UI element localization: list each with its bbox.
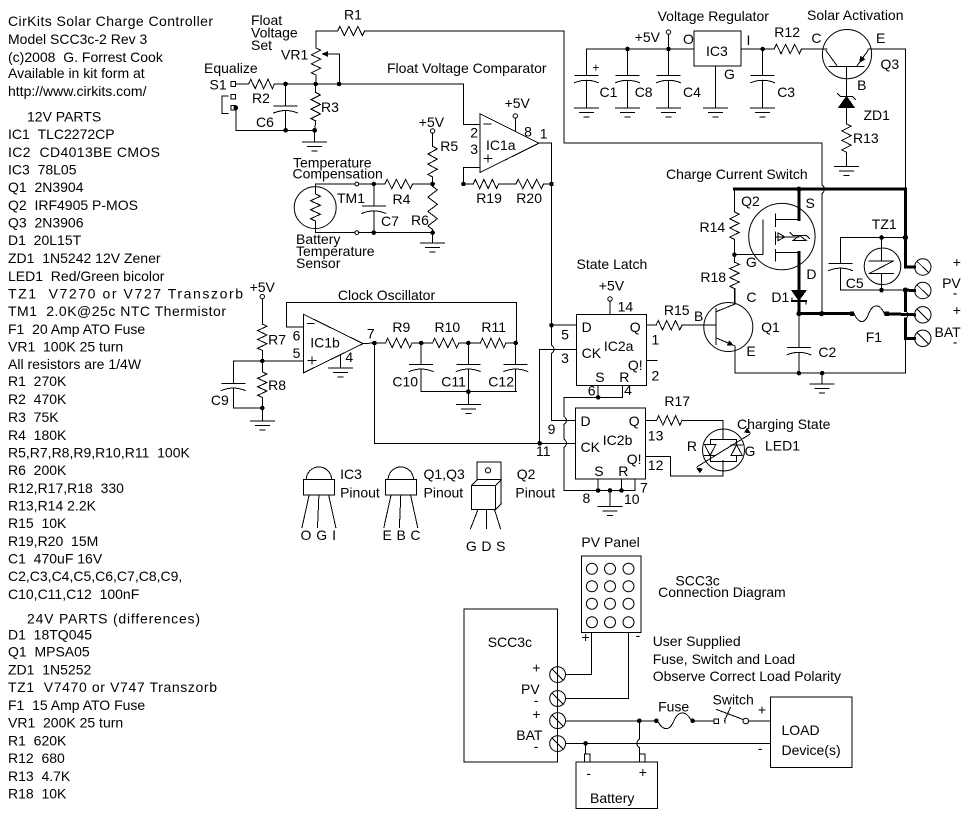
svg-text:IC2b: IC2b [603, 432, 633, 448]
pinout drawing Q1 Q3 TO-92 [383, 466, 465, 543]
svg-text:3: 3 [470, 141, 478, 157]
wire IC2b Q! to LED1 [645, 457, 723, 477]
svg-text:Fuse, Switch and Load: Fuse, Switch and Load [653, 651, 795, 667]
section label Temperature Compensation [293, 155, 383, 182]
zener diode ZD1 [838, 67, 891, 124]
section label Clock Oscillator [338, 287, 436, 303]
svg-text:(c)2008 G. Forrest Cook: (c)2008 G. Forrest Cook [8, 49, 164, 65]
svg-text:R20: R20 [516, 190, 542, 206]
capacitor C11 [441, 343, 480, 392]
svg-text:Q!: Q! [627, 451, 642, 467]
svg-text:C: C [811, 30, 821, 46]
svg-text:ZD1 1N5252: ZD1 1N5252 [8, 662, 91, 678]
svg-text:CK: CK [582, 345, 602, 361]
resistor R6 [411, 184, 437, 233]
svg-text:+: + [639, 764, 647, 780]
svg-text:Pinout: Pinout [515, 485, 555, 501]
svg-text:S: S [594, 463, 603, 479]
capacitor C5 [829, 238, 906, 292]
svg-text:8: 8 [583, 490, 591, 506]
resistor R20 [499, 179, 552, 206]
svg-text:ZD1 1N5242 12V Zener: ZD1 1N5242 12V Zener [8, 250, 161, 266]
svg-text:+: + [592, 61, 599, 75]
terminal PV+ [905, 254, 961, 275]
svg-text:R11: R11 [481, 319, 506, 335]
section label Charging State [737, 416, 831, 432]
svg-text:C2: C2 [818, 344, 836, 360]
pin 11 label [536, 443, 551, 459]
svg-text:C8: C8 [635, 84, 653, 100]
svg-text:TZ1 V7270 or V727 Transzorb: TZ1 V7270 or V727 Transzorb [8, 286, 243, 302]
ground below IC2b [598, 506, 622, 515]
svg-text:E: E [876, 30, 885, 46]
svg-text:Compensation: Compensation [293, 166, 383, 182]
section label Float Voltage Comparator [387, 60, 547, 76]
svg-text:C9: C9 [211, 392, 229, 408]
controller box SCC3c [464, 609, 558, 762]
regulator IC3 [683, 31, 750, 82]
svg-text:R: R [687, 438, 697, 454]
clock wire from oscillator to IC2b pin 11 [374, 343, 575, 443]
wire battery plus stem with hop [637, 721, 640, 754]
resistor R12 [774, 24, 801, 54]
resistor R7 [258, 324, 287, 363]
wire TM1 bottom with connector [316, 230, 435, 235]
svg-text:D: D [582, 319, 592, 335]
svg-text:R3 75K: R3 75K [8, 409, 59, 425]
feedback wire IC1b pin6 [287, 303, 517, 343]
ground below R13 [835, 167, 859, 176]
svg-text:-: - [636, 627, 641, 643]
svg-text:TM1 2.0K@25c NTC Thermistor: TM1 2.0K@25c NTC Thermistor [8, 303, 226, 319]
wire R1 to battery sense [365, 31, 825, 316]
svg-text:TZ1: TZ1 [872, 216, 897, 232]
svg-text:Float Voltage Comparator: Float Voltage Comparator [387, 60, 547, 76]
svg-text:5: 5 [561, 327, 569, 343]
svg-text:13: 13 [648, 428, 664, 444]
svg-text:IC3 78L05: IC3 78L05 [8, 162, 77, 178]
svg-text:2: 2 [652, 368, 660, 384]
PV panel [581, 534, 641, 645]
LED LED1 bicolor [687, 420, 800, 476]
svg-text:R14: R14 [700, 219, 726, 235]
svg-text:CK: CK [581, 439, 601, 455]
capacitor C7 [362, 184, 399, 233]
section label SCC3c Connection Diagram [658, 573, 786, 601]
svg-text:Sensor: Sensor [296, 255, 341, 271]
svg-text:+5V: +5V [419, 114, 445, 130]
capacitor C10 [392, 343, 433, 392]
svg-text:9: 9 [548, 421, 556, 437]
svg-text:C10: C10 [392, 374, 418, 390]
pin 9 label [548, 421, 556, 437]
svg-text:S: S [595, 369, 604, 385]
svg-text:LED1 Red/Green bicolor: LED1 Red/Green bicolor [8, 268, 165, 284]
svg-text:F1 15 Amp ATO Fuse: F1 15 Amp ATO Fuse [8, 697, 145, 713]
node float set [236, 82, 464, 87]
svg-text:Available in kit form at: Available in kit form at [8, 65, 145, 81]
wire BAT- to load [566, 741, 771, 746]
title and parts list text block [8, 13, 243, 802]
svg-text:Q1 2N3904: Q1 2N3904 [8, 179, 84, 195]
ground symbol below C2 [810, 384, 834, 393]
wire PV- to panel [566, 632, 629, 698]
svg-text:E: E [746, 343, 755, 359]
svg-text:2: 2 [470, 125, 478, 141]
svg-text:Charging State: Charging State [737, 416, 831, 432]
svg-text:Equalize: Equalize [204, 60, 258, 76]
note user supplied text [653, 633, 841, 684]
pinout drawing Q2 TO-220 [466, 462, 555, 554]
resistor R3 [311, 84, 339, 133]
capacitor C4 [657, 49, 702, 108]
ground below C4 [657, 108, 681, 117]
svg-text:Q2 IRF4905 P-MOS: Q2 IRF4905 P-MOS [8, 197, 138, 213]
svg-text:B: B [857, 77, 866, 93]
wire IC1b output pin7 [363, 341, 377, 346]
pin 13 label [648, 428, 664, 444]
svg-text:Fuse: Fuse [658, 699, 689, 715]
svg-text:Clock Oscillator: Clock Oscillator [338, 287, 436, 303]
svg-text:G: G [745, 443, 756, 459]
diode D1 [771, 289, 806, 314]
capacitor C6 [256, 84, 298, 133]
pinout drawing IC3 TO-92 [301, 466, 380, 543]
svg-text:VR1: VR1 [281, 47, 308, 63]
svg-text:R3: R3 [321, 99, 339, 115]
svg-text:C5: C5 [846, 275, 864, 291]
section label Voltage Regulator [658, 8, 770, 24]
svg-text:VR1 100K 25 turn: VR1 100K 25 turn [8, 339, 123, 355]
resistor R2 [249, 79, 275, 106]
resistor R19 [464, 179, 503, 206]
svg-text:+: + [758, 701, 766, 717]
pin 6 label [293, 328, 301, 344]
svg-text:-: - [953, 285, 958, 301]
potentiometer VR1 [281, 31, 340, 84]
resistor R11 [468, 319, 518, 348]
svg-text:R1: R1 [344, 7, 362, 23]
svg-text:ZD1: ZD1 [864, 107, 891, 123]
svg-text:E B C: E B C [383, 527, 421, 543]
switch S1 Equalize [204, 60, 315, 130]
svg-text:10: 10 [624, 491, 640, 507]
svg-text:TZ1 V7470 or V747 Transzorb: TZ1 V7470 or V747 Transzorb [8, 679, 217, 695]
resistor R10 [421, 319, 470, 348]
capacitor C2 [787, 314, 837, 373]
+5V supply IC1a pin 8 [505, 95, 532, 139]
svg-text:C11: C11 [441, 374, 466, 390]
svg-text:IC3: IC3 [706, 43, 728, 59]
flip-flop IC2b [575, 408, 645, 479]
svg-text:B: B [694, 308, 703, 324]
section label Solar Activation [807, 7, 904, 23]
capacitor C1 electrolytic [574, 49, 617, 108]
svg-text:G: G [724, 66, 735, 82]
svg-text:R4 180K: R4 180K [8, 427, 67, 443]
transistor Q3 [802, 29, 906, 189]
svg-text:6: 6 [293, 328, 301, 344]
svg-text:+5V: +5V [250, 279, 276, 295]
svg-text:C2,C3,C4,C5,C6,C7,C8,C9,: C2,C3,C4,C5,C6,C7,C8,C9, [8, 568, 182, 584]
op-amp IC1a [480, 114, 539, 173]
svg-text:R18 10K: R18 10K [8, 786, 67, 802]
svg-text:Q3: Q3 [881, 56, 900, 72]
svg-text:-: - [586, 765, 591, 781]
svg-text:Device(s): Device(s) [782, 742, 841, 758]
pin 3 label [470, 141, 478, 157]
svg-text:C3: C3 [777, 84, 795, 100]
svg-text:R9: R9 [392, 319, 410, 335]
svg-text:C12: C12 [488, 374, 514, 390]
svg-text:C1: C1 [600, 84, 618, 100]
ground rail bottom of switch [735, 371, 905, 384]
svg-text:R2: R2 [252, 90, 270, 106]
svg-text:D: D [581, 413, 591, 429]
svg-text:+: + [953, 302, 961, 318]
svg-text:R2 470K: R2 470K [8, 391, 67, 407]
ground below C3 [751, 108, 775, 117]
svg-text:4: 4 [624, 382, 632, 398]
svg-text:7: 7 [367, 326, 375, 342]
+5V supply IC2a pin 14 [599, 278, 634, 315]
resistor R17 [645, 393, 723, 425]
svg-text:F1 20 Amp ATO Fuse: F1 20 Amp ATO Fuse [8, 321, 145, 337]
svg-text:24V PARTS (differences): 24V PARTS (differences) [27, 611, 200, 627]
svg-text:Q2: Q2 [741, 193, 760, 209]
pin 5 label [293, 345, 301, 361]
PV plus rail thick [735, 187, 909, 267]
svg-text:8: 8 [524, 123, 532, 139]
svg-text:R6 200K: R6 200K [8, 462, 67, 478]
svg-text:I: I [747, 32, 751, 48]
ground below IC3 [704, 66, 728, 117]
pin 2 label [652, 368, 660, 384]
svg-text:O: O [683, 31, 694, 47]
pin 4 label [345, 349, 353, 365]
wire IC2a clock pin 3 [537, 349, 576, 445]
svg-text:G D S: G D S [466, 538, 506, 554]
IC2a Q! stub pin 2 [647, 359, 657, 361]
svg-text:Set: Set [251, 37, 272, 53]
svg-text:R: R [618, 463, 628, 479]
pin 1 label [540, 126, 548, 142]
svg-text:12V PARTS: 12V PARTS [27, 109, 101, 125]
IC2b S R pin7 ground line [564, 479, 635, 506]
pin 12 label [648, 457, 664, 473]
svg-text:Q!: Q! [628, 357, 643, 373]
wire pin3 from R19 node [461, 168, 480, 187]
capacitor C3 [741, 47, 795, 108]
pin 5 label [561, 327, 569, 343]
+5V supply above R7 [250, 279, 276, 324]
svg-text:IC3: IC3 [340, 466, 362, 482]
thermistor TM1 [294, 184, 365, 233]
svg-text:All resistors are 1/4W: All resistors are 1/4W [8, 356, 142, 372]
resistor R18 [700, 255, 739, 304]
svg-text:C7: C7 [381, 213, 399, 229]
terminal BAT- diagram [516, 727, 565, 754]
capacitor C8 [616, 49, 653, 108]
resistor R4 [374, 179, 435, 207]
svg-text:IC1 TLC2272CP: IC1 TLC2272CP [8, 126, 115, 142]
svg-text:Model SCC3c-2 Rev 3: Model SCC3c-2 Rev 3 [8, 31, 147, 47]
svg-text:6: 6 [588, 383, 596, 399]
svg-text:Connection Diagram: Connection Diagram [658, 584, 786, 600]
oscillator cap ground line [421, 389, 517, 404]
svg-text:R13 4.7K: R13 4.7K [8, 768, 71, 784]
terminal PV- [903, 275, 962, 301]
svg-text:1: 1 [652, 332, 660, 348]
terminal PV+ diagram [532, 660, 565, 683]
svg-text:IC1a: IC1a [486, 137, 516, 153]
svg-text:R13: R13 [853, 130, 879, 146]
svg-text:BAT: BAT [516, 727, 543, 743]
svg-text:3: 3 [561, 350, 569, 366]
svg-text:D: D [806, 266, 816, 282]
ground below R3 [303, 130, 327, 151]
+5V rail [586, 29, 694, 51]
svg-text:PV: PV [942, 275, 961, 291]
terminal PV- diagram [521, 681, 565, 708]
svg-text:R4: R4 [393, 191, 411, 207]
svg-text:IC1b: IC1b [310, 335, 340, 351]
terminal BAT+ diagram [532, 706, 565, 729]
svg-text:R1 270K: R1 270K [8, 373, 67, 389]
pin 3 label [561, 350, 569, 366]
ground below R8 [250, 408, 274, 430]
svg-text:-: - [953, 334, 958, 350]
svg-text:C: C [746, 289, 756, 305]
svg-text:Charge Current Switch: Charge Current Switch [666, 166, 808, 182]
transistor Q1 [682, 289, 780, 374]
transzorb TZ1 [864, 216, 901, 292]
pin 6 label [588, 383, 596, 399]
svg-text:1: 1 [540, 126, 548, 142]
svg-text:User Supplied: User Supplied [653, 633, 741, 649]
resistor R14 [700, 189, 740, 257]
svg-text:Observe Correct Load Polarity: Observe Correct Load Polarity [653, 668, 841, 684]
+5V supply above R5 [419, 114, 445, 146]
pin 8 label [583, 490, 591, 506]
resistor R8 [258, 361, 287, 410]
capacitor C12 [488, 343, 527, 392]
svg-text:+: + [582, 629, 590, 645]
wire PV- to BAT- to ground [905, 290, 908, 373]
svg-text:R8: R8 [268, 377, 286, 393]
wire TM1 top with connector [316, 182, 377, 187]
ground below R6 [421, 233, 445, 252]
svg-text:R12 680: R12 680 [8, 750, 65, 766]
svg-text:-: - [758, 740, 763, 756]
wire PV+ to panel [566, 632, 592, 674]
svg-text:+5V: +5V [505, 95, 531, 111]
svg-text:+5V: +5V [599, 278, 625, 294]
wire IC1a output to latch D inputs [549, 184, 576, 420]
svg-text:TM1: TM1 [337, 190, 365, 206]
pin 1 label [652, 332, 660, 348]
svg-text:Q3 2N3906: Q3 2N3906 [8, 215, 84, 231]
ground below C1 [574, 108, 598, 117]
svg-text:Q1: Q1 [761, 319, 780, 335]
section label State Latch [577, 256, 648, 272]
svg-text:PV Panel: PV Panel [581, 534, 639, 550]
svg-text:R15 10K: R15 10K [8, 515, 67, 531]
svg-text:D1: D1 [771, 289, 789, 305]
svg-text:R19: R19 [476, 190, 502, 206]
svg-text:R15: R15 [664, 302, 690, 318]
svg-text:5: 5 [293, 345, 301, 361]
svg-text:Q: Q [630, 319, 641, 335]
svg-text:http://www.cirkits.com/: http://www.cirkits.com/ [8, 83, 147, 99]
ground below C11 [456, 404, 480, 413]
svg-text:11: 11 [536, 443, 551, 459]
IC1b pin4 ground [329, 355, 353, 377]
svg-text:C6: C6 [256, 114, 274, 130]
svg-text:R18: R18 [700, 269, 726, 285]
wire battery minus stem [585, 743, 587, 754]
op-amp IC1b [303, 314, 363, 373]
svg-text:4: 4 [345, 349, 353, 365]
svg-text:Q: Q [629, 413, 640, 429]
resistor R15 [647, 302, 690, 330]
svg-text:Solar Activation: Solar Activation [807, 7, 904, 23]
svg-text:R1 620K: R1 620K [8, 733, 67, 749]
svg-text:State Latch: State Latch [577, 256, 648, 272]
svg-text:R5,R7,R8,R9,R10,R11 100K: R5,R7,R8,R9,R10,R11 100K [8, 445, 190, 461]
svg-text:Voltage Regulator: Voltage Regulator [658, 8, 770, 24]
pin 2 label [470, 125, 478, 141]
svg-text:S: S [806, 195, 815, 211]
load box [758, 697, 852, 767]
svg-text:R19,R20 15M: R19,R20 15M [8, 533, 98, 549]
svg-text:O G I: O G I [301, 527, 337, 543]
Q2 body diode [790, 233, 810, 241]
section label Battery Temperature Sensor [296, 231, 375, 271]
svg-text:12: 12 [648, 457, 664, 473]
resistor R1 [316, 7, 365, 36]
wire IC1a output [539, 143, 554, 186]
svg-text:+5V: +5V [635, 29, 661, 45]
battery plus feed thick wire with fuse F1 [796, 306, 914, 345]
svg-text:LED1: LED1 [765, 438, 800, 454]
pin 7 label [367, 326, 375, 342]
svg-text:Q1,Q3: Q1,Q3 [424, 466, 465, 482]
svg-text:C10,C11,C12 100nF: C10,C11,C12 100nF [8, 586, 139, 602]
svg-text:C1 470uF 16V: C1 470uF 16V [8, 551, 103, 567]
svg-text:VR1 200K 25 turn: VR1 200K 25 turn [8, 715, 123, 731]
svg-text:LOAD: LOAD [782, 722, 820, 738]
wire R7 R8 node to IC1b pin5 [233, 360, 303, 362]
svg-text:R10: R10 [435, 319, 461, 335]
svg-text:D1 18TQ045: D1 18TQ045 [8, 627, 92, 643]
section label Charge Current Switch [666, 166, 808, 182]
svg-text:+: + [532, 706, 540, 722]
flip-flop IC2a [577, 314, 647, 385]
pin 7 label [640, 480, 648, 496]
resistor R9 [374, 319, 423, 348]
svg-text:R6: R6 [411, 212, 429, 228]
svg-text:Pinout: Pinout [340, 485, 380, 501]
svg-text:+: + [532, 660, 540, 676]
svg-text:SCC3c: SCC3c [488, 634, 532, 650]
resistor R5 [428, 138, 459, 184]
svg-text:R12,R17,R18 330: R12,R17,R18 330 [8, 480, 124, 496]
pin 4 label [624, 382, 632, 398]
svg-text:Q2: Q2 [517, 466, 536, 482]
wire IC2a S R tie to ground line [564, 385, 623, 490]
switch symbol [713, 692, 771, 724]
